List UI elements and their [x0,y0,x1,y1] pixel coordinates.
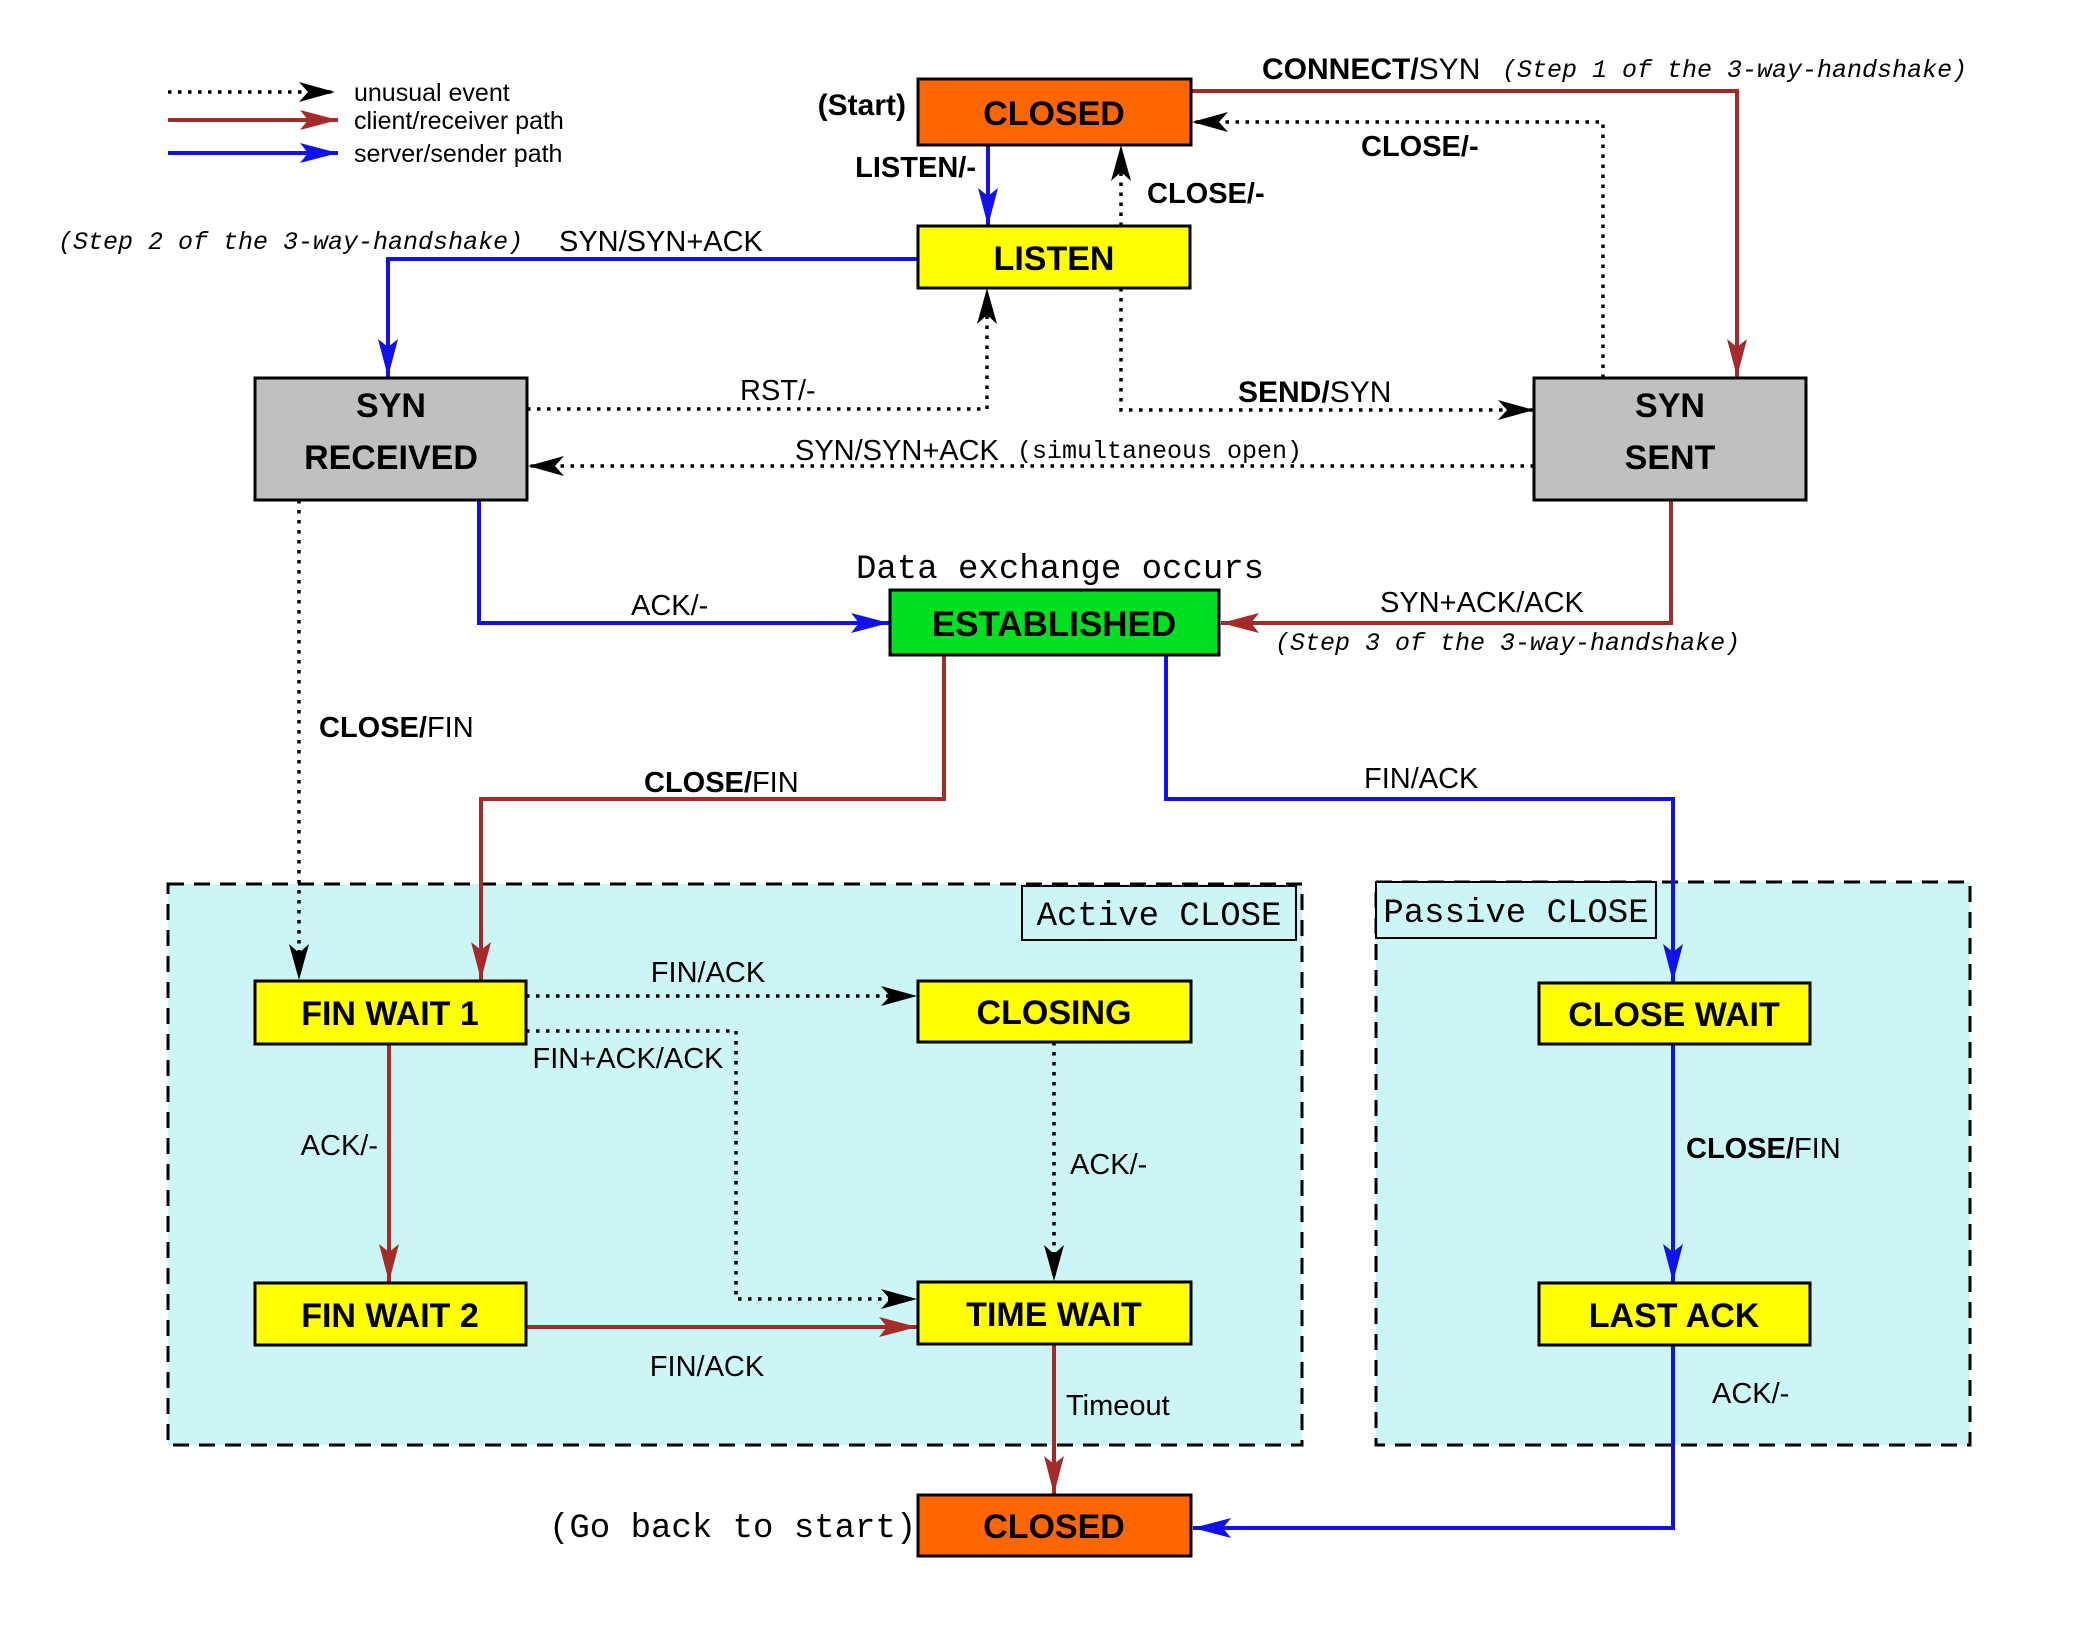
svg-text:ESTABLISHED: ESTABLISHED [932,605,1176,644]
svg-text:(Go back to start): (Go back to start) [549,1510,916,1548]
wire CLOSE/FIN red ESTABLISHED->FIN WAIT 1 [481,655,944,980]
svg-text:Passive CLOSE: Passive CLOSE [1383,895,1648,933]
wire ACK/- blue LAST ACK->CLOSED bottom [1193,1345,1789,1528]
legend unusual event [168,79,510,107]
wire CLOSE/- dotted SYN SENT->CLOSED [1193,122,1603,378]
svg-text:(Step 2 of the 3-way-handshake: (Step 2 of the 3-way-handshake) [58,228,523,257]
wire RST/- dotted SYN RECEIVED->LISTEN [527,289,987,409]
svg-text:SYN/SYN+ACK: SYN/SYN+ACK [795,435,1000,467]
state ESTABLISHED [890,590,1219,655]
wire SYN/SYN+ACK blue LISTEN->SYN RECEIVED [58,226,918,377]
svg-text:SYN+ACK/ACK: SYN+ACK/ACK [1380,587,1585,619]
wire SEND/SYN dotted LISTEN->SYN SENT [1121,288,1533,410]
svg-text:RECEIVED: RECEIVED [304,439,478,477]
wire SYN+ACK/ACK red SYN SENT->ESTABLISHED [1221,499,1740,658]
svg-text:FIN/ACK: FIN/ACK [650,1351,765,1383]
wire CLOSE/- dotted LISTEN->CLOSED [1121,146,1265,226]
svg-text:CLOSED: CLOSED [983,95,1125,133]
legend client/receiver path [168,107,564,135]
svg-text:FIN/ACK: FIN/ACK [651,957,766,989]
state SYN RECEIVED [255,378,527,500]
svg-text:CLOSE/-: CLOSE/- [1361,131,1479,163]
state FIN WAIT 1 [255,981,526,1044]
wire CLOSE/FIN blue CLOSE WAIT->LAST ACK [1673,1044,1841,1282]
svg-text:ACK/-: ACK/- [1070,1149,1147,1181]
state CLOSED top [918,79,1191,145]
svg-text:FIN WAIT 1: FIN WAIT 1 [301,995,479,1033]
svg-text:Data exchange occurs: Data exchange occurs [856,551,1264,589]
svg-text:TIME WAIT: TIME WAIT [966,1296,1142,1334]
panel Active CLOSE [168,884,1302,1445]
svg-text:FIN+ACK/ACK: FIN+ACK/ACK [533,1043,725,1075]
svg-text:client/receiver path: client/receiver path [354,107,564,135]
svg-text:FIN/ACK: FIN/ACK [1364,763,1479,795]
state SYN SENT [1534,378,1806,500]
svg-text:CLOSED: CLOSED [983,1508,1125,1546]
svg-text:RST/-: RST/- [740,375,816,407]
wire FIN/ACK red FIN WAIT 2->TIME WAIT [526,1327,917,1383]
svg-text:SYN/SYN+ACK: SYN/SYN+ACK [559,226,764,258]
svg-text:SENT: SENT [1625,439,1716,477]
svg-text:unusual event: unusual event [354,79,510,107]
svg-text:SYN: SYN [1635,387,1705,425]
state FIN WAIT 2 [255,1283,526,1345]
svg-text:ACK/-: ACK/- [1712,1378,1789,1410]
svg-text:ACK/-: ACK/- [301,1130,378,1162]
legend server/sender path [168,140,562,168]
wire Timeout red TIME WAIT->CLOSED [1054,1344,1170,1494]
svg-text:Timeout: Timeout [1066,1390,1170,1422]
state CLOSING [918,981,1191,1042]
state LAST ACK [1539,1283,1810,1345]
svg-text:CLOSE/-: CLOSE/- [1147,178,1265,210]
wire FIN/ACK blue ESTABLISHED->CLOSE WAIT [1166,655,1673,982]
wire ACK/- red FIN WAIT 1->FIN WAIT 2 [301,1044,389,1282]
state CLOSE WAIT [1539,983,1810,1044]
wire ACK/- blue SYN RECEIVED->ESTABLISHED [479,500,889,623]
wire ACK/- dotted CLOSING->TIME WAIT [1054,1042,1147,1280]
state LISTEN [918,226,1190,288]
svg-text:LAST ACK: LAST ACK [1589,1297,1760,1335]
svg-text:(Start): (Start) [818,89,906,122]
wire SYN/SYN+ACK dotted simultaneous open SYN SENT->SYN RECEIVED [529,435,1534,467]
svg-text:LISTEN: LISTEN [994,240,1115,278]
svg-text:LISTEN/-: LISTEN/- [855,152,976,184]
svg-text:SEND/SYN: SEND/SYN [1238,376,1391,409]
svg-text:ACK/-: ACK/- [631,590,708,622]
svg-text:SYN: SYN [356,387,426,425]
svg-text:Active CLOSE: Active CLOSE [1037,898,1282,936]
svg-text:CONNECT/SYN: CONNECT/SYN [1262,53,1480,86]
svg-text:server/sender path: server/sender path [354,140,562,168]
svg-text:CLOSE/FIN: CLOSE/FIN [319,712,474,744]
state CLOSED bottom [918,1495,1191,1556]
svg-text:CLOSE/FIN: CLOSE/FIN [644,767,799,799]
svg-text:CLOSE WAIT: CLOSE WAIT [1568,996,1780,1034]
wire LISTEN/- blue CLOSED->LISTEN [855,145,988,226]
svg-text:(Step 1 of the 3-way-handshake: (Step 1 of the 3-way-handshake) [1502,56,1967,85]
wire FIN/ACK dotted FIN WAIT 1->CLOSING [526,957,916,996]
wire CLOSE/FIN dotted SYN RECEIVED->FIN WAIT 1 [299,500,474,979]
svg-text:(simultaneous open): (simultaneous open) [1017,437,1302,466]
wire FIN+ACK/ACK dotted FIN WAIT 1->TIME WAIT [526,1031,916,1299]
svg-text:FIN WAIT 2: FIN WAIT 2 [301,1297,479,1335]
svg-text:CLOSING: CLOSING [977,994,1132,1032]
wire CONNECT/SYN red CLOSED->SYN SENT [1191,53,1967,377]
state TIME WAIT [918,1282,1191,1344]
svg-text:(Step 3 of the 3-way-handshake: (Step 3 of the 3-way-handshake) [1275,629,1740,658]
panel Passive CLOSE [1376,882,1970,1445]
svg-text:CLOSE/FIN: CLOSE/FIN [1686,1133,1841,1165]
